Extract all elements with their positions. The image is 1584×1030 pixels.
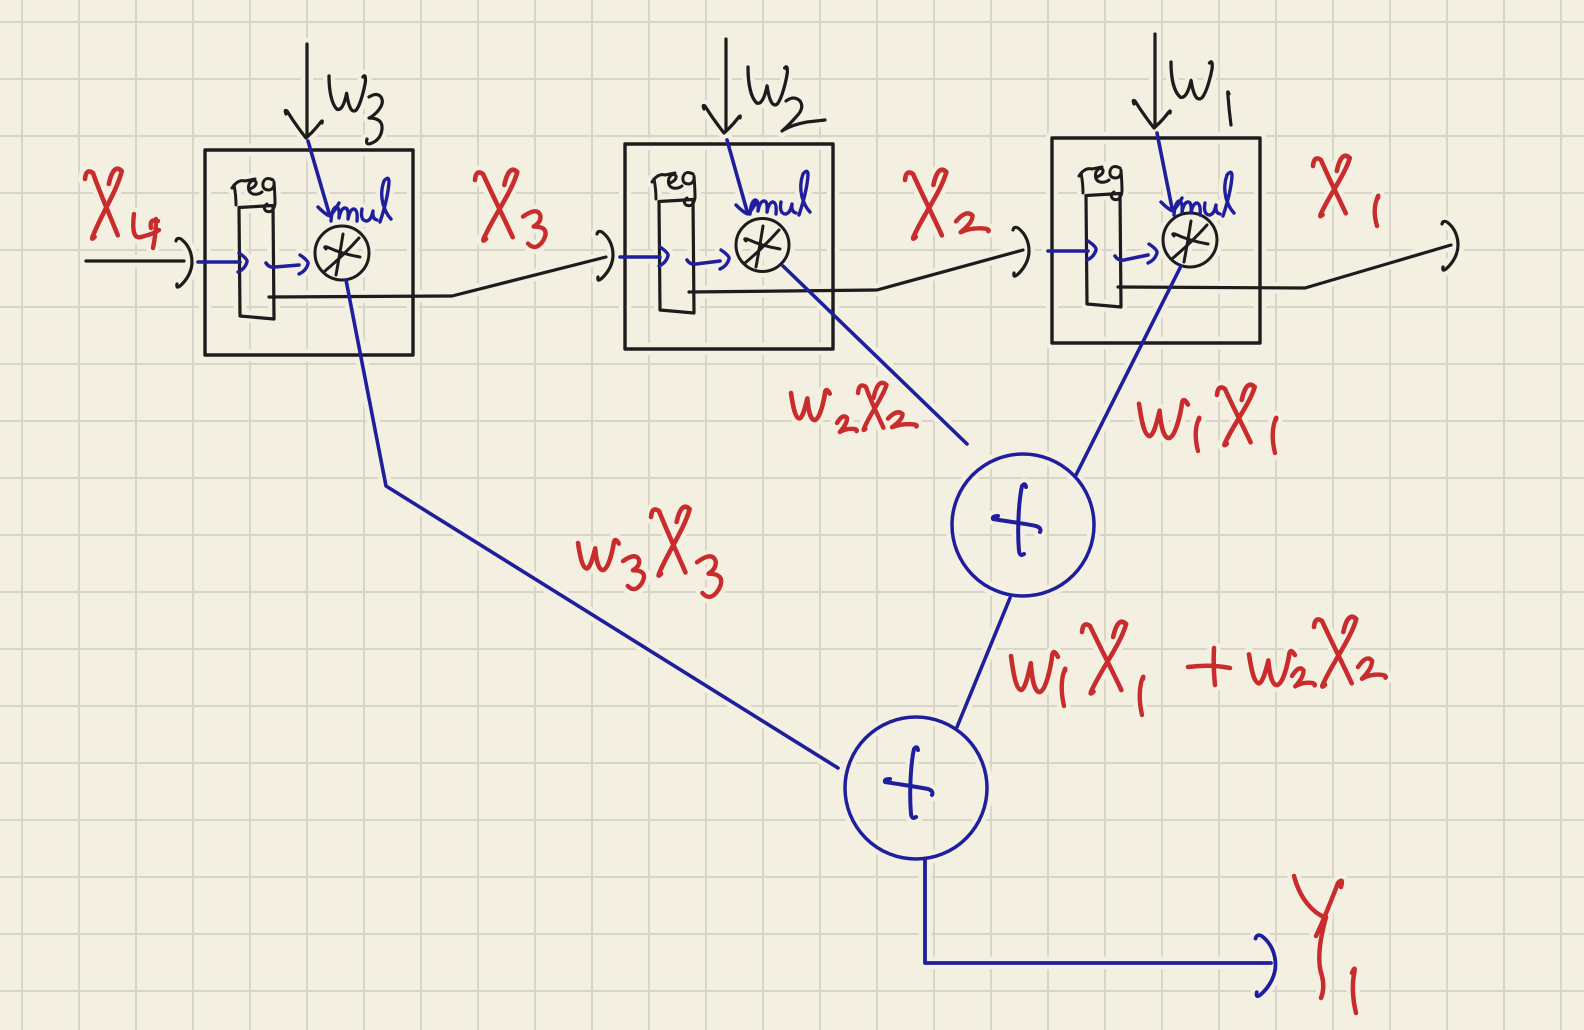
label w3X3 xyxy=(578,507,721,597)
register rectangle B2 xyxy=(659,200,694,314)
processing element box B3 xyxy=(205,150,413,355)
label w2X2 xyxy=(791,383,917,432)
label W3 xyxy=(329,76,382,144)
register rectangle B3 xyxy=(239,206,274,320)
wire W1 blue into mul B1 xyxy=(1157,133,1182,211)
multiplier asterisk B1 xyxy=(1173,221,1208,262)
label mul B3 xyxy=(331,178,391,222)
wire blue reg to mul B1 xyxy=(1115,244,1157,263)
label w1X1 xyxy=(1139,385,1276,453)
arrowhead W3 xyxy=(285,110,322,138)
label X2 xyxy=(905,170,989,239)
wire blue into reg B1 xyxy=(1048,241,1096,260)
wire adder A1 to adder A2 xyxy=(957,598,1010,727)
adder A2 circle xyxy=(845,717,987,859)
multiplier mul B1 circle xyxy=(1163,213,1217,267)
register rectangle B1 xyxy=(1086,194,1121,308)
arrowhead X2 xyxy=(1013,227,1029,276)
label reg B2 xyxy=(652,173,695,206)
arrowhead into block B3 xyxy=(176,238,192,287)
adder A1 plus xyxy=(993,484,1041,555)
label W2 xyxy=(748,67,825,131)
arrowhead W1 xyxy=(1133,100,1170,128)
wire X4 input xyxy=(86,259,184,262)
wire W2 blue into mul B2 xyxy=(727,140,757,214)
label reg B3 xyxy=(232,179,275,212)
wire B3 output xyxy=(269,257,606,297)
wire B1 output xyxy=(1118,245,1451,288)
wire w3x3 from mul B3 to adder A2 xyxy=(346,280,838,768)
multiplier mul B3 circle xyxy=(315,226,369,280)
wire W2 vertical xyxy=(724,39,727,130)
wire W3 blue into mul B3 xyxy=(308,141,339,216)
label mul B1 xyxy=(1174,172,1234,216)
arrowhead Y1 xyxy=(1256,935,1276,996)
label X3 xyxy=(475,170,546,247)
wire blue into reg B3 xyxy=(198,253,247,272)
wire W3 vertical xyxy=(305,44,308,134)
multiplier asterisk B2 xyxy=(745,226,780,267)
adder A1 circle xyxy=(952,454,1094,596)
label X4 input signal xyxy=(85,169,159,248)
wire blue into reg B2 xyxy=(620,247,668,266)
wire w2x2 from mul B2 to adder A1 xyxy=(783,266,967,444)
arrowhead X1 output xyxy=(1442,221,1458,270)
wire B2 output xyxy=(689,250,1023,292)
label Y1 xyxy=(1294,876,1356,1013)
multiplier asterisk B3 xyxy=(325,234,360,275)
label mul B2 xyxy=(750,171,810,215)
wire w1x1 from mul B1 to adder A1 xyxy=(1076,266,1181,475)
adder A2 plus xyxy=(885,747,933,818)
multiplier mul B2 circle xyxy=(736,219,789,272)
label W1 xyxy=(1171,62,1231,125)
label X1 xyxy=(1313,156,1378,226)
processing element box B1 xyxy=(1052,138,1260,343)
processing element box B2 xyxy=(625,144,833,349)
label w1X1 + w2X2 xyxy=(1011,617,1386,715)
wire Y1 output xyxy=(925,859,1271,963)
arrowhead W2 xyxy=(703,105,740,133)
wire W1 vertical xyxy=(1153,34,1156,124)
wire blue reg to mul B3 xyxy=(266,255,308,274)
label reg B1 xyxy=(1079,167,1122,200)
arrowhead X3 xyxy=(597,231,613,280)
wire blue reg to mul B2 xyxy=(687,250,729,269)
